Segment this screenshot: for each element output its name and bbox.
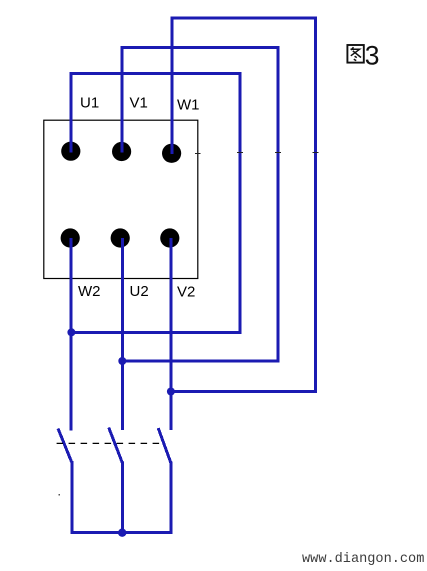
terminal U1 bbox=[61, 142, 80, 161]
junction dot W2/inner loop bbox=[67, 328, 75, 336]
svg-text:V1: V1 bbox=[130, 95, 148, 112]
junction dot U2/middle loop bbox=[118, 357, 126, 365]
wire: loop V1 to U2 (middle loop: up from V1, across top y=47.5, down at x=278, across y=361 to U2 junction) bbox=[122, 48, 278, 362]
wire: bottom bus bbox=[70, 531, 172, 534]
svg-text:V2: V2 bbox=[177, 284, 195, 301]
wire: U2 terminal down to switch 2 fixed contact bbox=[121, 238, 124, 430]
terminal box outline bbox=[44, 120, 198, 278]
junction dot V2/outer loop bbox=[167, 388, 175, 396]
figure label 图3 : hand-drawn 图 glyph bbox=[347, 45, 363, 63]
terminal U2 bbox=[111, 228, 130, 247]
wire: V2 terminal down to switch 3 fixed contact bbox=[169, 238, 172, 430]
switch 3 blade bbox=[158, 428, 171, 463]
wire: loop W1 to V2 (outer loop: up from W1, across top y=17, down at x=315.5, across y=391.5 to V2 junction) bbox=[171, 18, 316, 392]
wire: switch 2 to bottom bus bbox=[121, 462, 124, 533]
wire: loop U1 to W2 (inner loop: up from U1, across top y=73, down at x=240.5, across y=332 to W2 junction) bbox=[71, 74, 240, 333]
switch gang dashed link bbox=[57, 442, 163, 444]
terminal V2 bbox=[160, 228, 179, 247]
tick mark on middle loop wire bbox=[275, 152, 281, 154]
wire: W2 terminal down to switch 1 fixed contact bbox=[70, 238, 73, 431]
svg-text:U1: U1 bbox=[80, 95, 99, 112]
terminal W2 bbox=[61, 228, 80, 247]
junction dot bottom bus bbox=[118, 529, 126, 537]
wire: switch 3 to bottom bus bbox=[169, 462, 172, 533]
tick mark on outer loop wire bbox=[313, 152, 319, 154]
svg-text:3: 3 bbox=[365, 40, 380, 70]
terminal W1 bbox=[162, 144, 181, 163]
terminal V1 bbox=[112, 142, 131, 161]
wire: switch 1 to bottom bus bbox=[70, 461, 73, 533]
svg-text:W1: W1 bbox=[177, 97, 200, 114]
stray speck bbox=[59, 494, 61, 496]
switch 1 blade bbox=[58, 429, 72, 463]
tick mark on inner loop wire bbox=[237, 152, 243, 154]
tick mark on box right edge bbox=[195, 153, 201, 155]
switch 2 blade bbox=[109, 428, 123, 464]
svg-text:U2: U2 bbox=[130, 283, 149, 300]
svg-text:W2: W2 bbox=[78, 283, 101, 300]
svg-text:www.diangon.com: www.diangon.com bbox=[302, 552, 424, 567]
